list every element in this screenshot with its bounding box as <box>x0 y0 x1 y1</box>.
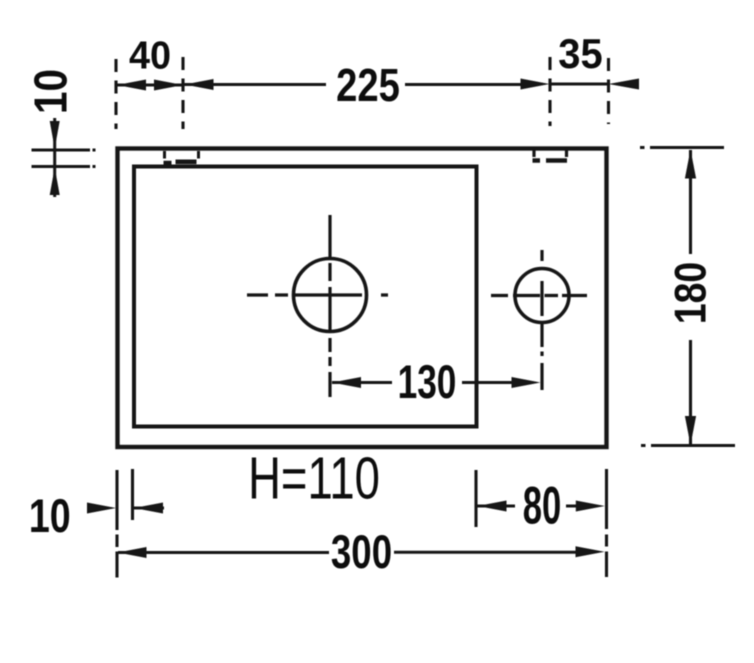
large hole vertical centerline <box>328 215 331 397</box>
10 bottom left arrowhead (right) <box>87 503 116 514</box>
dim 35 right extension line (dashed) <box>607 58 610 124</box>
dim 10 left vertical line <box>53 118 56 197</box>
300 right arrowhead <box>576 546 605 557</box>
large hole circle <box>294 259 367 332</box>
dim 40 left extension line (dashed) <box>114 59 117 129</box>
slot mark B ticks (top wall, x~534-567) <box>534 151 567 158</box>
40 right arrowhead <box>154 80 183 91</box>
130 left arrowhead <box>332 377 361 388</box>
dim 80 / 300 shared right extension line <box>605 469 608 577</box>
dim 35 left extension line (dashed) <box>548 57 551 126</box>
dim 10 bottom inner extension line <box>131 469 134 520</box>
35 right arrowhead <box>609 79 640 90</box>
dim 130 line right segment <box>462 381 513 384</box>
svg-text:35: 35 <box>558 30 602 77</box>
dim 10 bottom outer extension line <box>115 470 118 578</box>
dim 130 line left segment <box>332 381 392 384</box>
dim 300 line right segment <box>394 551 577 554</box>
slot mark B dashes <box>533 158 568 163</box>
dim 180 line lower segment <box>689 340 692 445</box>
small hole horizontal centerline <box>491 294 587 297</box>
225 left arrowhead <box>185 79 214 90</box>
svg-text:10: 10 <box>26 69 77 114</box>
dim 80 left extension line <box>474 470 477 527</box>
svg-text:10: 10 <box>29 490 71 543</box>
225 right / 35 left shared arrowhead <box>521 79 550 90</box>
dim 225 line left segment <box>184 83 326 86</box>
80 right arrowhead <box>576 501 605 512</box>
dim 225 line right segment <box>405 83 521 86</box>
svg-text:225: 225 <box>336 60 400 111</box>
300 left arrowhead <box>118 547 147 558</box>
dim 10 left lower extension line <box>32 165 96 168</box>
svg-text:180: 180 <box>665 262 715 324</box>
svg-text:H=110: H=110 <box>248 446 380 512</box>
dim 180 bottom extension line <box>641 444 735 447</box>
dim 300 line left segment <box>118 551 329 554</box>
dim 180 line upper segment <box>689 150 692 254</box>
dim 10 bottom line tails <box>134 507 164 510</box>
svg-text:80: 80 <box>523 477 562 535</box>
dim 35 line <box>550 83 608 86</box>
10 bottom right arrowhead (left) <box>134 503 163 514</box>
10 left lower arrowhead (up) <box>50 168 60 196</box>
180 top arrowhead (up) <box>685 150 696 179</box>
small hole circle <box>515 269 569 323</box>
dim 80 line segments <box>477 505 578 508</box>
svg-text:40: 40 <box>129 34 171 78</box>
slot mark A dash <box>164 162 197 163</box>
small hole vertical centerline <box>540 250 543 390</box>
dim 180 top extension line <box>640 146 724 149</box>
svg-text:300: 300 <box>331 526 392 578</box>
svg-text:130: 130 <box>398 355 457 408</box>
10 left upper arrowhead (down) <box>50 121 60 149</box>
80 left arrowhead <box>478 501 507 512</box>
dim 10 left upper extension line <box>32 149 96 152</box>
inner rectangle (basin outline) <box>134 167 477 427</box>
dim 40 line <box>117 84 183 87</box>
slot mark A ticks (top wall, x~165-199) <box>165 151 199 159</box>
40 left arrowhead <box>117 80 146 91</box>
outer rectangle (300x180 body outline) <box>118 149 607 448</box>
180 bottom arrowhead (down) <box>685 416 696 445</box>
large hole horizontal centerline <box>247 293 388 296</box>
dim 40 right extension line (dashed) <box>181 57 184 129</box>
130 right arrowhead <box>512 377 541 388</box>
